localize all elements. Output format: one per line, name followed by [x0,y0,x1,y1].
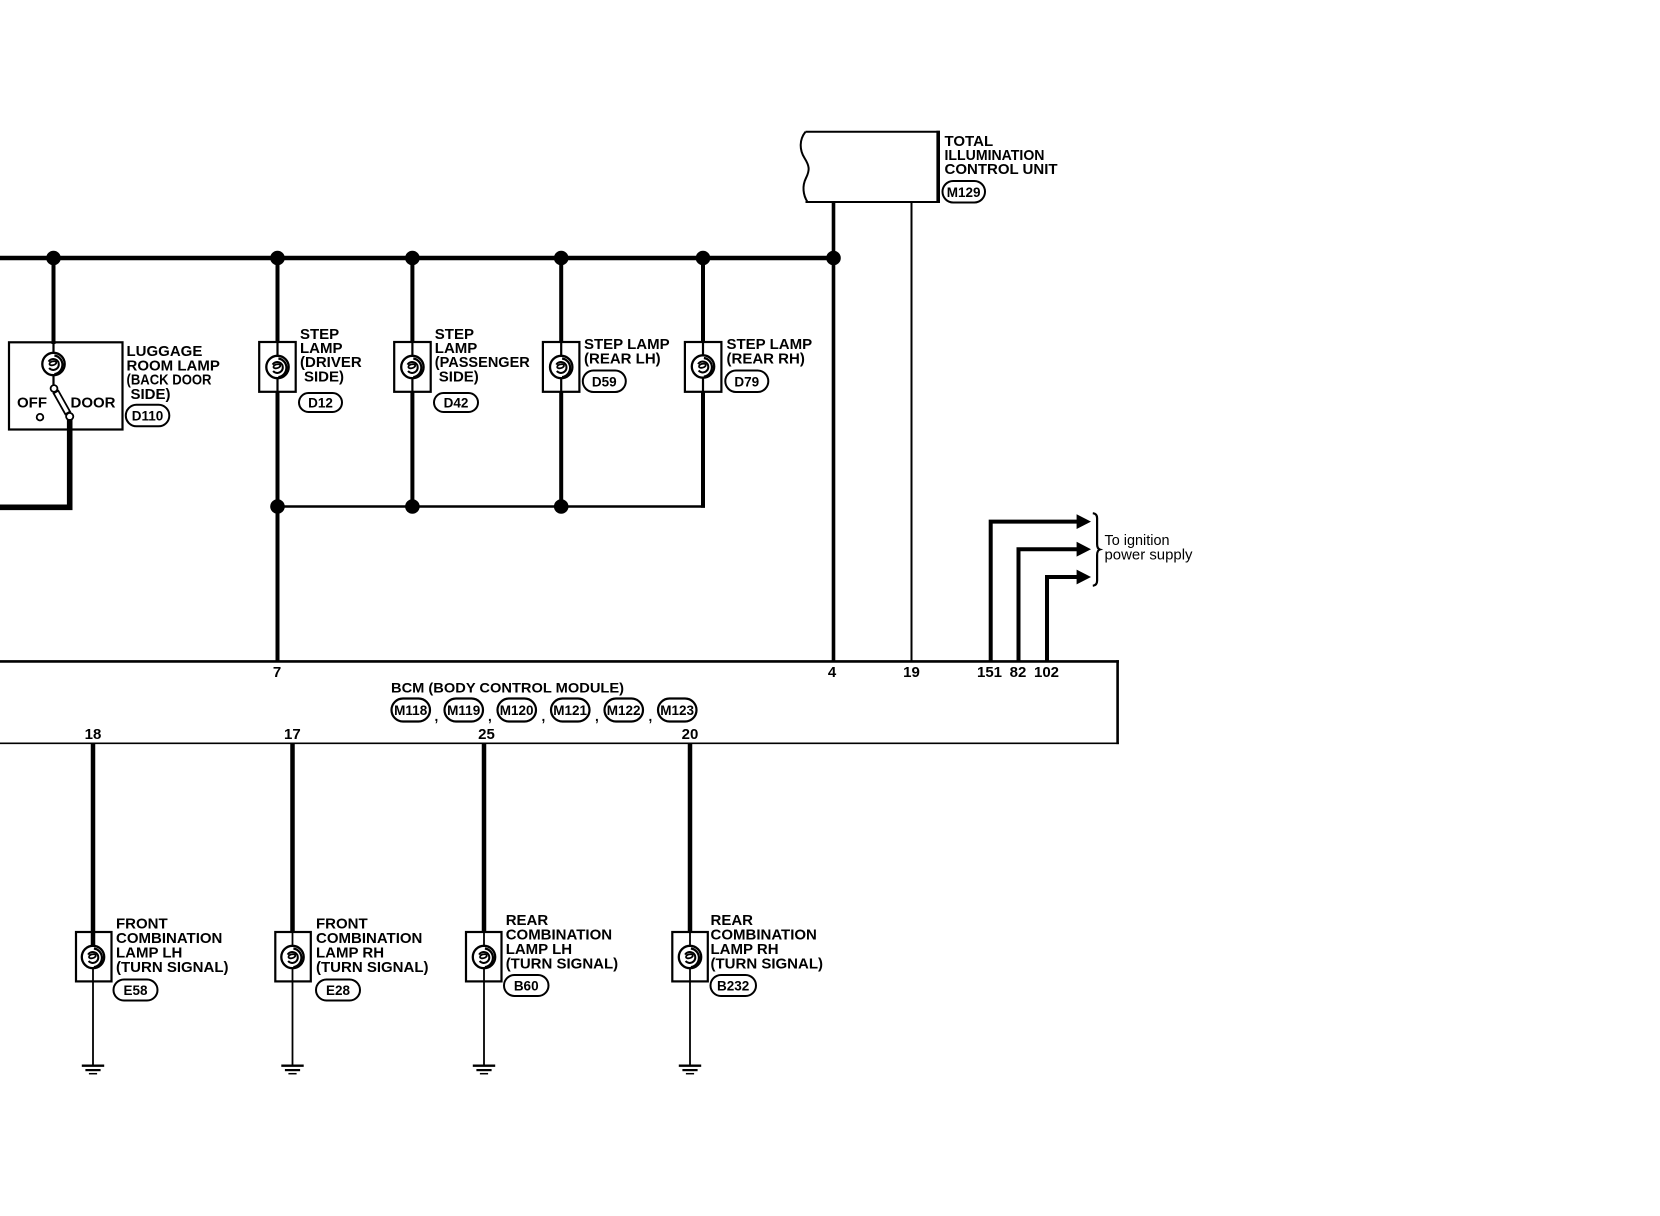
svg-text:,: , [542,709,546,724]
lamp bulb B232 [679,946,701,968]
svg-text:power supply: power supply [1105,547,1194,563]
switch DOOR contact [66,413,73,420]
connector oval M118 [392,699,431,722]
wire: top supply bus [0,256,834,261]
ground at B60 [473,1066,495,1074]
connector oval M119 [445,699,484,722]
wire: control unit to BCM pin 19 [911,202,913,661]
svg-text:,: , [435,709,439,724]
svg-text:E58: E58 [123,983,148,998]
svg-text:D110: D110 [132,408,164,423]
svg-text:,: , [649,709,653,724]
svg-text:7: 7 [273,664,281,681]
lamp bulb D12 [266,356,288,378]
connector oval M129 [943,181,986,203]
lamp bulb B60 [473,946,495,968]
connector oval D12 [299,393,342,412]
label STEP LAMP (REAR RH) [727,336,813,368]
svg-text:B60: B60 [514,979,539,994]
label REAR COMBINATION LAMP LH (TURN SIGNAL) [506,912,619,973]
label STEP LAMP (DRIVER SIDE) [300,326,362,386]
label FRONT COMBINATION LAMP RH (TURN SIGNAL) [316,916,429,977]
label TOTAL ILLUMINATION CONTROL UNIT [945,133,1058,178]
ground at E28 [281,1066,303,1074]
wire inside D12 [276,342,278,392]
node junction on bus above D110 [46,251,61,266]
switch pivot contact [51,385,58,392]
lamp bulb E28 [281,946,303,968]
svg-text:(TURN SIGNAL): (TURN SIGNAL) [116,959,229,976]
svg-text:M122: M122 [607,703,641,718]
svg-text:SIDE): SIDE) [131,386,171,403]
connector oval M122 [605,699,644,722]
svg-text:(TURN SIGNAL): (TURN SIGNAL) [316,959,429,976]
svg-text:D42: D42 [444,395,469,410]
svg-text:(TURN SIGNAL): (TURN SIGNAL) [711,956,824,973]
step lamp passenger side D42 box [394,342,431,392]
wire: BCM pin 102 to ignition power supply arrow [1047,577,1077,661]
wire: bus drop to step lamp rear LH [559,258,563,343]
svg-text:B232: B232 [717,979,749,994]
connector oval D42 [434,393,478,412]
wire: luggage lamp switch to left edge [0,419,70,507]
wire: bus drop to step lamp rear RH [701,258,705,343]
svg-text:BCM (BODY CONTROL MODULE): BCM (BODY CONTROL MODULE) [391,680,624,696]
svg-text:M123: M123 [660,703,694,718]
connector oval M120 [498,699,537,722]
svg-text:E28: E28 [326,983,351,998]
lamp bulb D42 [401,356,423,378]
node junction on bus above D12 [270,251,285,266]
switch lever [54,391,70,415]
wire inside E28 and to ground [292,932,294,1066]
wire: bus drop to step lamp driver side [276,258,280,343]
svg-text:D12: D12 [308,395,333,410]
lamp bulb D59 [550,356,572,378]
label FRONT COMBINATION LAMP LH (TURN SIGNAL) [116,916,229,977]
brace grouping ignition supply arrows [1093,513,1100,586]
wire inside B60 and to ground [483,932,485,1066]
step lamp rear LH D59 box [543,342,580,392]
ground at E58 [82,1066,104,1074]
wire inside B232 and to ground [689,932,691,1066]
svg-text:4: 4 [828,664,837,681]
total illumination control unit M129 box [801,131,940,203]
lamp bulb D79 [692,355,714,377]
wire inside D42 [411,342,413,392]
label To ignition power supply [1105,533,1194,564]
svg-text:,: , [488,709,492,724]
wire: D59 to lower bus [559,392,563,507]
wire: BCM pin 25 to rear combination lamp LH [482,743,487,933]
wire: lower collector bus [278,505,706,508]
wire: BCM pin 20 to rear combination lamp RH [688,743,693,933]
lamp bulb E58 [82,946,104,968]
svg-text:D79: D79 [734,374,759,389]
wire: D79 down to lower bus corner [701,392,705,508]
wire: BCM pin 17 to front combination lamp RH [290,743,295,933]
lamp bulb D110 [42,353,64,375]
svg-text:(REAR RH): (REAR RH) [727,350,805,367]
rear combination lamp LH B60 box [466,932,502,981]
svg-text:(REAR LH): (REAR LH) [584,350,661,367]
connector oval M121 [551,699,590,722]
wire: D42 to lower bus [410,392,414,507]
wire inside D59 [560,342,562,392]
front combination lamp LH E58 box [76,932,112,981]
wire: lower bus to BCM pin 7 [276,507,280,662]
connector oval E28 [316,980,360,1001]
svg-text:19: 19 [903,664,920,681]
wire inside D79 [702,342,704,392]
connector oval B60 [504,975,549,996]
wire: D12 to lower bus [276,392,280,507]
connector oval E58 [114,980,158,1001]
wire bulb to switch pivot [52,375,54,386]
svg-text:M121: M121 [553,703,587,718]
svg-text:M118: M118 [394,703,428,718]
wire: BCM pin 18 to front combination lamp LH [91,743,96,946]
connector oval D59 [583,371,626,393]
node junction on bus at total illumination control unit feed [826,251,841,266]
connector oval B232 [711,975,757,996]
svg-text:M119: M119 [447,703,480,718]
svg-text:M129: M129 [947,185,981,200]
wire: BCM pin 82 to ignition power supply arrow [1019,549,1078,661]
svg-text:20: 20 [682,726,699,743]
wire: BCM pin 151 to ignition power supply arrow [991,522,1077,661]
svg-text:CONTROL UNIT: CONTROL UNIT [945,161,1058,178]
svg-text:SIDE): SIDE) [304,368,344,385]
node junction on bus above D42 [405,251,420,266]
svg-text:SIDE): SIDE) [439,368,479,385]
wire: control unit to bus and BCM pin 4 [832,202,836,661]
front combination lamp RH E28 box [275,932,311,981]
node junction on bus above D59 [554,251,569,266]
svg-text:,: , [595,709,599,724]
luggage room lamp D110 box [9,342,123,429]
label STEP LAMP (REAR LH) [584,336,670,368]
label REAR COMBINATION LAMP RH (TURN SIGNAL) [711,912,824,973]
wire inside D110 to bulb [52,343,54,376]
wire: bus drop to step lamp passenger side [410,258,414,343]
wire inside E58 and to ground [92,932,94,1066]
ground at B232 [679,1066,701,1074]
switch OFF contact [37,414,44,421]
svg-text:25: 25 [478,726,495,743]
svg-text:18: 18 [85,726,102,743]
svg-text:D59: D59 [592,374,617,389]
label STEP LAMP (PASSENGER SIDE) [435,326,530,386]
svg-text:DOOR: DOOR [71,395,116,412]
svg-text:82: 82 [1010,664,1027,681]
step lamp rear RH D79 box [685,342,722,392]
svg-text:102: 102 [1034,664,1059,681]
node junction lower bus at D59 [554,499,569,514]
svg-text:17: 17 [284,726,301,743]
connector oval D79 [725,371,768,393]
node junction lower bus at D42 [405,499,420,514]
label LUGGAGE ROOM LAMP (BACK DOOR SIDE) [127,343,220,403]
node junction lower bus at D12 [270,499,285,514]
BCM body control module box [0,660,1119,744]
wire: bus drop to luggage room lamp [52,258,56,344]
connector oval D110 [126,405,170,427]
rear combination lamp RH B232 box [672,932,708,981]
svg-text:151: 151 [977,664,1002,681]
svg-text:OFF: OFF [17,395,47,412]
step lamp driver side D12 box [259,342,296,392]
svg-text:M120: M120 [500,703,534,718]
svg-text:(TURN SIGNAL): (TURN SIGNAL) [506,956,619,973]
connector oval M123 [658,699,697,722]
node junction on bus above D79 [696,251,711,266]
